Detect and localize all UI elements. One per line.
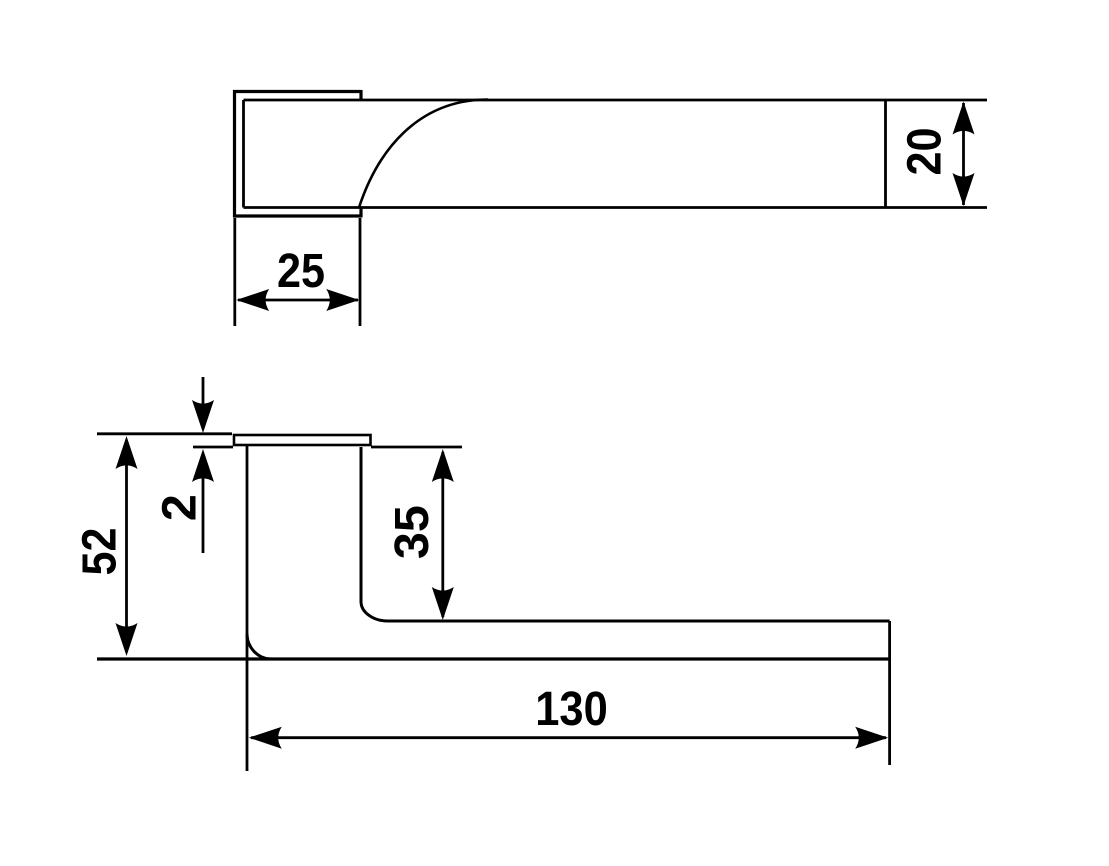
extension line top for dim 52 [97,432,232,435]
neck-to-grip fillet right [361,602,388,622]
rosette plate (side view) [234,435,371,445]
svg-text:2: 2 [152,494,206,521]
arrowhead 52 top (points up) [116,436,138,469]
extension line left for dim 25 [233,218,236,326]
arrowhead 2 upper (points down) [192,400,214,433]
arrowhead 2 lower (points up) [192,449,214,482]
handle bar outline (top view) bottom edge + extension line to 20-dim [244,206,988,209]
bracket jog top [359,90,362,100]
dim 2 lower arrow shaft [202,462,205,553]
grip right end edge, continues as extension for dim 130 [888,621,891,765]
arrowhead 35 top (points up) [432,449,454,482]
dimension arrow shaft 20 [962,103,965,205]
TOP VIEW [235,90,988,326]
dim 35 arrow shaft [441,452,444,617]
dimension arrow shaft 25 [238,299,358,302]
svg-text:35: 35 [385,505,439,559]
neck right edge (side view) [360,447,363,602]
dim 2 upper arrow shaft [202,377,205,410]
arrowhead 25 right [326,289,359,311]
rosette bracket outline (top view) [235,92,362,217]
dim 130 arrow shaft [251,736,886,739]
neck transition curve (top view) [359,100,488,208]
svg-text:25: 25 [277,244,325,298]
svg-text:20: 20 [898,128,952,176]
bracket jog bottom [359,208,362,218]
handle bar outline (top view) top edge + extension line to 20-dim [244,99,988,102]
arrowhead 25 left [236,289,269,311]
arrowhead 52 bottom (points down) [116,623,138,656]
grip bottom edge + extension line left for dim 52 [97,657,890,660]
svg-text:130: 130 [535,682,608,736]
extension line for dim 35 top (right of plate) [371,446,462,449]
arrowhead 130 left (points left) [249,727,282,749]
neck left edge (side view), continues as extension for dim 130 [246,445,249,771]
arrowhead 20 top [953,102,975,135]
arrowhead 20 bottom [953,173,975,206]
dim 52 arrow shaft [125,440,128,652]
arrowhead 35 bottom (points down) [432,587,454,620]
grip top edge (side view) [388,620,890,623]
arrowhead 130 right (points right) [855,727,888,749]
SIDE VIEW [97,377,890,771]
extension line right for dim 25 [359,218,362,326]
handle bar left edge (top view) [242,100,245,208]
svg-text:52: 52 [73,528,127,576]
extension line for dim 2 bottom (left of plate) [193,446,233,449]
handle bar right end edge (top view) [884,100,887,208]
neck-to-grip fillet left bottom [247,634,272,660]
